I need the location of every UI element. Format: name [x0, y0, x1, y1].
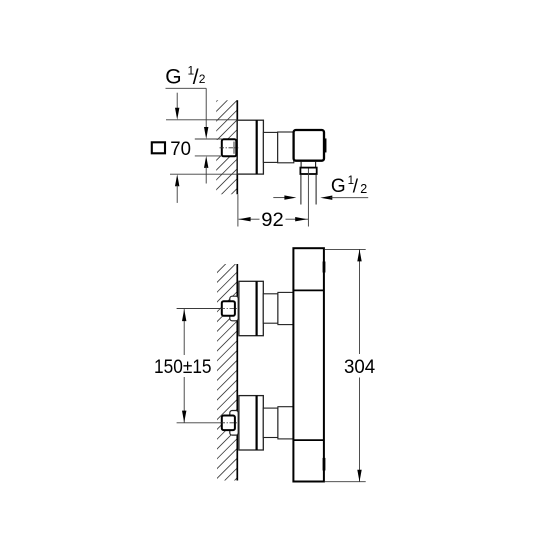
svg-text:/: /	[353, 176, 359, 197]
svg-text:92: 92	[261, 209, 284, 231]
svg-text:2: 2	[360, 182, 367, 196]
svg-text:G: G	[331, 176, 346, 197]
svg-text:304: 304	[344, 356, 375, 378]
svg-text:2: 2	[199, 72, 206, 86]
svg-text:G: G	[165, 66, 181, 89]
svg-text:150±15: 150±15	[154, 356, 212, 378]
svg-text:70: 70	[170, 138, 191, 160]
